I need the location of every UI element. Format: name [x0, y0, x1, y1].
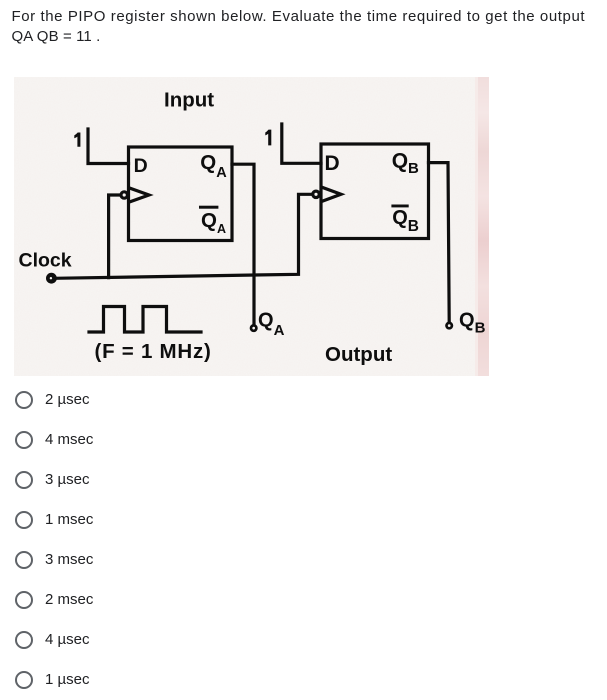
wire: input 1 to U2 D [282, 124, 321, 163]
svg-text:D: D [134, 155, 148, 177]
clock triangle U1 [130, 188, 150, 202]
node: clock source dot [46, 273, 57, 284]
terminal QA [251, 325, 256, 330]
svg-text:(F = 1 MHz): (F = 1 MHz) [95, 340, 212, 363]
svg-text:D: D [325, 152, 340, 175]
flip-flop U2 box [321, 144, 429, 239]
label 1 (U2 input) [265, 130, 271, 146]
wire: clock to U1 [109, 195, 121, 278]
label 1 (U1 input) [74, 133, 80, 147]
svg-text:Output: Output [325, 343, 392, 366]
options [0, 388, 300, 412]
clock bubble U2 [313, 191, 319, 197]
wire: input 1 to U1 D [88, 129, 129, 164]
clock bubble U1 [121, 192, 127, 198]
flip-flop U1 box [129, 147, 233, 241]
wire: U2 QB to output terminal [429, 163, 450, 322]
clock waveform [89, 307, 201, 333]
scanned paper background [14, 77, 489, 376]
scan pink edge band [475, 77, 479, 376]
svg-text:Clock: Clock [19, 250, 72, 272]
wire: U1 QA to output terminal [232, 164, 254, 324]
svg-text:Input: Input [164, 89, 214, 112]
terminal QB [447, 323, 452, 328]
wire: clock line [54, 194, 312, 278]
clock triangle U2 [322, 187, 341, 201]
